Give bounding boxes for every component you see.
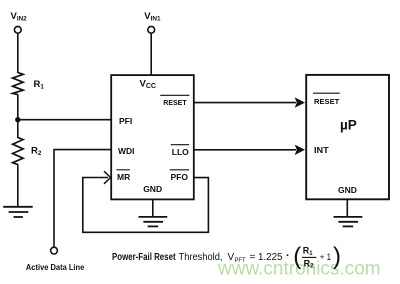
wire R2 to ground [17,164,19,207]
ground G1 [3,207,33,217]
svg-text:=: = [250,252,256,263]
wire VIN1 to VCC [150,33,152,75]
svg-text:WDI: WDI [118,146,135,156]
pin label GND (U1) [143,184,162,194]
svg-text:µP: µP [340,118,357,133]
wire R1 to junction [17,94,19,119]
label R1 [34,79,45,91]
svg-text:VIN1: VIN1 [144,11,161,23]
arrowhead INT [295,145,305,155]
pin label RESET (uP) with overline [313,93,340,106]
wire LLO to INT [195,149,297,151]
microprocessor uP box [306,75,389,199]
svg-text:RESET: RESET [163,98,187,107]
svg-text:GND: GND [143,184,162,194]
pin label RESET (U1) with overline [160,95,189,107]
label Active Data Line [26,262,85,272]
terminal VIN2 [14,26,21,33]
pin label PFO with overline [170,170,189,182]
svg-text:R2: R2 [31,146,42,158]
svg-text:PFO: PFO [171,172,189,182]
terminal VIN1 [148,26,155,33]
svg-text:Threshold,: Threshold, [179,252,223,263]
wire VIN2 to R1 [17,33,19,73]
svg-text:Active Data Line: Active Data Line [26,262,85,272]
resistor R1 [13,73,24,95]
junction node [15,117,20,122]
watermark www.cntronics.com [217,259,381,280]
pin label MR with overline [117,170,131,182]
svg-text:1.225: 1.225 [258,252,283,263]
svg-text:LLO: LLO [172,147,189,157]
ground G2 [139,217,168,227]
wire RESET to uP [195,102,297,104]
svg-text:R1: R1 [303,246,314,257]
wire U1 GND to ground [152,200,154,217]
caption Power-Fail Reset Threshold formula [112,243,341,270]
svg-text:(: ( [293,243,301,270]
svg-text:VIN2: VIN2 [11,11,28,23]
svg-text:·: · [286,250,290,262]
pin label LLO with overline [171,145,189,157]
node VIN2 label [11,11,28,23]
svg-text:MR: MR [117,172,130,182]
svg-text:V: V [228,252,235,263]
terminal Active Data Line [51,247,58,254]
pin label PFI [119,116,132,126]
pin label WDI [118,146,135,156]
wire junction to PFI [18,119,111,121]
svg-text:PFT: PFT [235,257,246,264]
svg-text:): ) [333,243,341,270]
ground G3 [334,217,363,227]
arrowhead RESET [295,97,305,107]
wire uP GND to ground [346,200,348,217]
svg-text:Power-Fail Reset: Power-Fail Reset [112,252,176,263]
svg-text:INT: INT [314,146,329,155]
svg-text:PFI: PFI [119,116,132,126]
pin label GND (uP) [338,185,357,195]
node VIN1 label [144,11,161,23]
svg-text:RESET: RESET [314,97,340,106]
wire junction to R2 [17,120,19,138]
svg-text:VCC: VCC [140,79,156,90]
wire PFO to MR loop [83,178,209,233]
pin label VCC [140,79,156,90]
wire WDI [54,150,111,248]
label R2 [31,146,42,158]
arrowhead into MR [104,171,111,184]
svg-text:R1: R1 [34,79,45,91]
svg-text:GND: GND [338,185,357,195]
svg-text:+ 1: + 1 [320,252,331,262]
resistor R2 [13,138,24,165]
label uP [340,118,357,133]
supervisor IC U1 box [111,75,194,199]
pin label INT [314,146,329,155]
